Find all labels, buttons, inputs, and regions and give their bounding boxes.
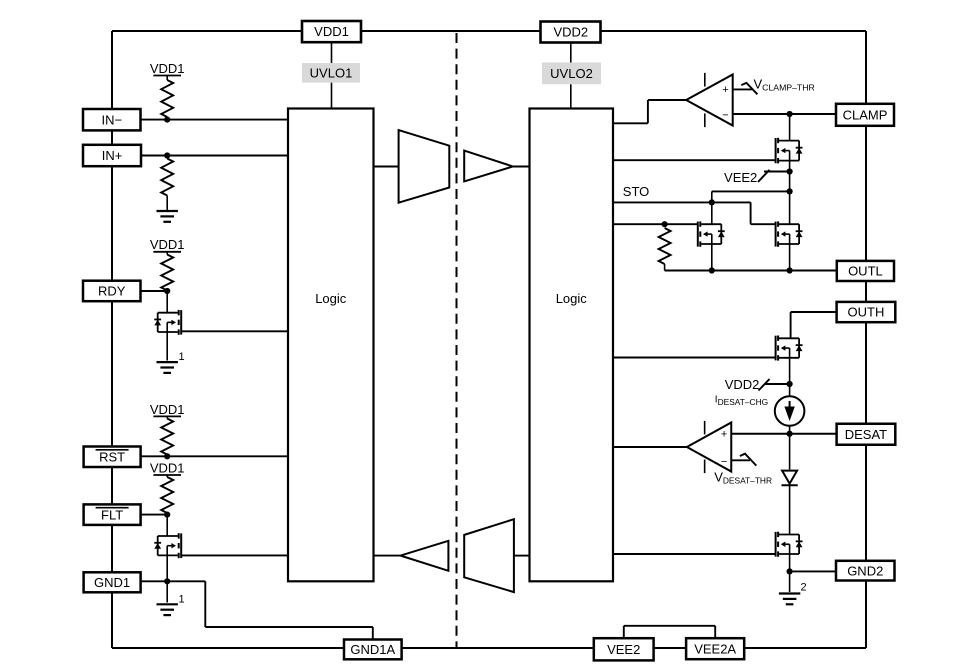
svg-text:DESAT: DESAT bbox=[845, 427, 887, 442]
svg-text:IN+: IN+ bbox=[102, 148, 123, 163]
svg-text:VDD2: VDD2 bbox=[553, 25, 588, 40]
svg-text:OUTL: OUTL bbox=[848, 264, 883, 279]
svg-text:VEE2: VEE2 bbox=[724, 170, 757, 185]
svg-text:VDD2: VDD2 bbox=[725, 377, 760, 392]
svg-text:VEE2: VEE2 bbox=[607, 642, 640, 657]
svg-text:Logic: Logic bbox=[315, 291, 347, 306]
svg-text:RDY: RDY bbox=[98, 284, 126, 299]
svg-text:FLT: FLT bbox=[101, 507, 123, 522]
svg-text:+: + bbox=[722, 84, 728, 96]
svg-text:UVLO1: UVLO1 bbox=[310, 65, 353, 80]
svg-text:−: − bbox=[721, 456, 727, 468]
svg-text:VEE2A: VEE2A bbox=[694, 641, 736, 656]
svg-text:Logic: Logic bbox=[556, 291, 588, 306]
svg-text:CLAMP: CLAMP bbox=[843, 107, 888, 122]
svg-text:2: 2 bbox=[801, 582, 807, 594]
svg-text:VDD1: VDD1 bbox=[150, 402, 185, 417]
svg-text:VDD1: VDD1 bbox=[150, 460, 185, 475]
svg-text:VDD1: VDD1 bbox=[150, 237, 185, 252]
svg-text:+: + bbox=[721, 428, 727, 440]
svg-text:IN−: IN− bbox=[101, 112, 122, 127]
svg-text:RST: RST bbox=[99, 449, 125, 464]
svg-text:IDESAT–CHG: IDESAT–CHG bbox=[715, 395, 768, 408]
svg-text:1: 1 bbox=[179, 351, 185, 363]
svg-text:GND1: GND1 bbox=[94, 575, 130, 590]
svg-text:1: 1 bbox=[179, 593, 185, 605]
svg-text:GND1A: GND1A bbox=[350, 642, 395, 657]
svg-text:OUTH: OUTH bbox=[848, 305, 885, 320]
svg-text:STO: STO bbox=[623, 184, 650, 199]
svg-text:VDD1: VDD1 bbox=[150, 61, 185, 76]
svg-text:GND2: GND2 bbox=[847, 563, 883, 578]
svg-text:−: − bbox=[722, 110, 728, 122]
svg-text:UVLO2: UVLO2 bbox=[550, 66, 593, 81]
svg-text:VDD1: VDD1 bbox=[314, 24, 349, 39]
